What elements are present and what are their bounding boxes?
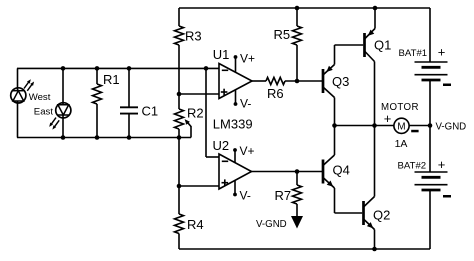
svg-text:East: East [34,107,54,118]
wire R1 leads [96,68,98,137]
resistor R5 [293,26,302,45]
svg-text:R6: R6 [267,86,284,101]
U2 plus symbol [222,179,229,186]
battery BAT#2 [415,172,448,190]
wire C1 leads [128,68,130,137]
node Q1 emitter rail [373,6,378,11]
LED West sensor [11,88,26,103]
svg-text:BAT#1: BAT#1 [399,48,428,59]
node East bottom [61,135,66,140]
label LM339 [213,117,253,132]
battery BAT#1 [415,62,448,80]
svg-text:V+: V+ [240,51,255,65]
svg-text:Q1: Q1 [374,37,391,52]
label R7 [275,188,292,203]
svg-text:V-: V- [240,96,251,110]
U2 V- pin [233,180,237,196]
wire top sensor bus [17,67,219,69]
label R5 [274,27,291,42]
label U2 [213,138,230,153]
wire bottom sensor bus [17,137,191,139]
Q2 emitter arrow [367,222,373,228]
svg-text:V+: V+ [240,144,255,158]
label U2 V+ [240,144,255,158]
wire U1 output [252,80,266,82]
svg-text:Q3: Q3 [332,74,349,89]
svg-text:R5: R5 [274,27,291,42]
label BAT#2 minus [443,195,451,198]
label BAT#2 [398,160,427,171]
node U1 noninverting [177,92,182,97]
svg-text:V-: V- [240,189,251,203]
label motor M [397,121,405,132]
node U2 inverting branch [204,66,209,71]
Q4 collector [323,126,335,166]
label R4 [187,217,204,232]
wire R5 top lead [296,8,298,26]
label BAT#1 plus [438,44,446,59]
wire U1 noninverting input [179,93,219,95]
wire R2 to R4 [178,129,180,214]
Q1 emitter arrow [368,30,374,36]
U1 V+ pin [234,55,238,72]
node R1 bottom [95,135,100,140]
label U2 V- [240,189,251,203]
wire R7 top lead [296,172,298,186]
svg-text:V-GND: V-GND [436,121,467,132]
label MOTOR [381,102,419,113]
label BAT#1 minus [443,84,451,87]
node Q1-Q2 collectors [372,123,377,128]
LED East light arrows [49,118,59,130]
label V-GND lower [256,219,287,230]
svg-text:+: + [438,157,446,172]
node U2 noninverting [177,184,182,189]
svg-text:LM339: LM339 [213,117,253,132]
Q1 collector [365,51,375,126]
wire motor left [335,125,395,127]
svg-text:+: + [384,111,392,126]
Q2 emitter [364,219,375,249]
label West [29,92,51,103]
label U1 [213,47,230,62]
node V-GND mid battery [428,123,433,128]
label R6 [267,86,284,101]
wire U2 noninverting input [179,185,219,187]
resistor R3 [175,26,184,45]
svg-text:R4: R4 [187,217,204,232]
node C1 bottom [127,135,132,140]
svg-text:U1: U1 [213,47,230,62]
svg-text:R3: R3 [185,28,202,43]
node U1 output junction [295,79,300,84]
transistor Q2 bar [362,201,365,225]
wire U2 inverting input [206,68,219,157]
wire R3 to R2 [178,45,180,109]
wire Q4 emitter to Q2 base [335,212,363,214]
svg-text:C1: C1 [142,104,159,119]
label motor minus [411,130,418,133]
wire Q3 emitter to Q1 base [335,44,364,46]
Q2 collector [364,126,375,208]
Q1 emitter [365,8,376,39]
label East [34,107,54,118]
wire battery column right [429,8,431,249]
label U1 V+ [240,51,255,65]
wire R3 top lead [178,8,180,26]
transistor Q4 bar [322,160,325,184]
resistor R6 [266,77,285,84]
wire R6 to Q3 base [285,80,322,82]
node R1 top [95,66,100,71]
label Q4 [333,163,350,178]
label R2 [187,106,204,121]
label V-GND right [436,121,467,132]
label R3 [185,28,202,43]
Q3 emitter arrow [326,66,332,72]
node Q2 emitter rail [372,247,377,252]
U2 minus symbol [222,160,228,162]
resistor R4 [175,214,184,234]
label BAT#1 [399,48,428,59]
label U1 V- [240,96,251,110]
LED East sensor [56,103,71,118]
U1 V- pin [234,90,238,106]
U2 V+ pin [233,148,237,163]
op-amp U1 [219,64,252,99]
resistor R2 potentiometer [175,109,184,129]
transistor Q1 bar [363,33,366,57]
U1 minus symbol [222,69,228,71]
node U2 output junction [295,169,300,174]
label R1 [103,72,120,87]
label 1A [395,138,408,150]
wire R7 bottom lead [296,204,298,216]
Q3 collector [323,87,335,126]
ground V-GND symbol [291,216,303,229]
svg-text:Q2: Q2 [373,208,390,223]
wire U2 output [252,171,323,173]
op-amp U2 [219,154,252,189]
svg-text:1A: 1A [395,138,408,150]
node East top [61,66,66,71]
wire top V+ rail [179,7,430,9]
label C1 [142,104,159,119]
svg-text:Q4: Q4 [333,163,350,178]
wire left sensor loop left side [17,68,19,137]
resistor R7 [293,185,302,204]
label motor plus [384,111,392,126]
capacitor C1 [120,107,138,113]
transistor Q3 bar [322,69,325,93]
motor M1 [394,118,409,133]
pot R2 wiper [185,119,191,137]
svg-text:R2: R2 [187,106,204,121]
resistor R1 [93,84,102,104]
node R2 bottom [177,135,182,140]
wire R5 bottom lead [296,45,298,81]
node C1 top [127,66,132,71]
label Q3 [332,74,349,89]
svg-text:West: West [29,92,51,103]
svg-text:BAT#2: BAT#2 [398,160,427,171]
Q4 emitter arrow [327,181,333,187]
node R5 top [295,6,300,11]
U1 plus symbol [221,89,228,96]
Q3 emitter [323,45,335,75]
wire bottom V- rail [179,248,430,250]
svg-text:+: + [438,44,446,59]
label Q2 [373,208,390,223]
svg-text:M: M [397,121,405,132]
svg-text:R7: R7 [275,188,292,203]
wire R4 bottom lead [178,234,180,250]
svg-text:U2: U2 [213,138,230,153]
node Q3-Q4 collectors [332,123,337,128]
svg-text:R1: R1 [103,72,120,87]
svg-text:V-GND: V-GND [256,219,287,230]
LED West light arrows [24,79,34,91]
wire motor right [409,125,430,127]
label Q1 [374,37,391,52]
Q4 emitter [323,178,335,214]
label BAT#2 plus [438,157,446,172]
wire East branch [62,68,64,137]
